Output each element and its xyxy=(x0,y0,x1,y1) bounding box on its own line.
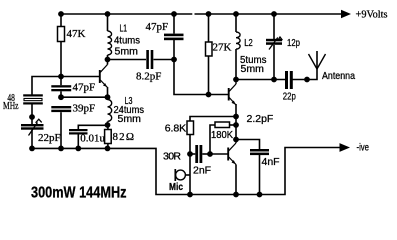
wire Q3 emitter down xyxy=(235,165,237,195)
svg-text:2.2pF: 2.2pF xyxy=(247,113,274,125)
wire 12p trimmer lead xyxy=(273,14,275,39)
transistor Q2 xyxy=(229,80,236,106)
svg-text:47pF: 47pF xyxy=(73,82,96,94)
gap in top rail xyxy=(192,13,194,16)
node 180K right xyxy=(233,122,239,128)
capacitor C7 12p trimmer xyxy=(266,39,282,45)
svg-text:0.01u: 0.01u xyxy=(80,133,105,145)
svg-text:2nF: 2nF xyxy=(193,165,211,177)
wire Q3 base xyxy=(210,153,228,155)
node top rail L2 xyxy=(233,11,239,17)
wire 174 column down to Q2 base row xyxy=(174,60,228,95)
node top rail 27K xyxy=(206,11,212,17)
node 27K base xyxy=(206,92,212,98)
svg-text:Antenna: Antenna xyxy=(322,70,355,82)
inductor L2 xyxy=(236,32,240,49)
resistor R3 82ohm xyxy=(105,130,112,144)
capacitor C6 8.2pF xyxy=(146,50,153,69)
node top rail 47pF xyxy=(171,11,177,17)
svg-text:+9Volts: +9Volts xyxy=(356,9,388,21)
wire 2nF row xyxy=(190,153,195,155)
svg-text:22p: 22p xyxy=(283,91,296,103)
node rail 82R xyxy=(105,146,111,152)
svg-text:8.2pF: 8.2pF xyxy=(136,71,161,83)
svg-text:82Ω: 82Ω xyxy=(113,131,135,143)
wire collector Q3 node to 4nF xyxy=(235,125,237,140)
svg-text:MHz: MHz xyxy=(3,100,19,112)
capacitor C3 22pF trimmer xyxy=(21,124,44,130)
node L2 bottom xyxy=(233,77,239,83)
node Q1 emitter xyxy=(105,94,111,100)
node Q2 emitter 6.8K xyxy=(233,114,239,120)
capacitor C2 39pF xyxy=(51,106,71,112)
resistor R4 6.8K xyxy=(187,121,194,135)
svg-text:6.8K: 6.8K xyxy=(165,123,187,135)
+9V supply arrow xyxy=(341,10,351,19)
svg-text:-ive: -ive xyxy=(357,142,370,154)
wire Q2 emitter down xyxy=(235,104,237,117)
wire mic branch xyxy=(189,154,191,195)
svg-text:5mm: 5mm xyxy=(241,63,265,75)
wire bottom left rail xyxy=(32,148,341,195)
wire 0.01u branch xyxy=(78,125,107,129)
-ive supply arrow xyxy=(340,143,351,152)
node caps junction xyxy=(58,94,64,100)
node 2nF right xyxy=(207,151,213,157)
wire 47pF top cap leads xyxy=(173,14,175,34)
wire L3 leads xyxy=(107,97,109,99)
svg-text:39pF: 39pF xyxy=(73,103,96,115)
wire 82R leads xyxy=(107,125,109,129)
wire L1 column leads xyxy=(107,14,109,31)
capacitor C1 47pF xyxy=(51,85,71,91)
wire 47K column xyxy=(60,14,62,27)
wire crystal branch xyxy=(32,77,61,95)
capacitor C5 47pF top xyxy=(164,34,184,41)
svg-text:27K: 27K xyxy=(213,42,232,54)
node top rail 12p xyxy=(271,11,277,17)
svg-text:30R: 30R xyxy=(163,151,181,163)
capacitor C8 22p xyxy=(285,71,293,89)
svg-text:22pF: 22pF xyxy=(38,132,61,144)
svg-text:5mm: 5mm xyxy=(115,46,139,58)
inductor L3 xyxy=(108,100,112,122)
microphone Mic xyxy=(176,170,186,180)
svg-text:5mm: 5mm xyxy=(118,113,142,125)
node 8.2pF out xyxy=(171,57,177,63)
node rail Q3 emitter xyxy=(233,192,239,198)
wire top rail xyxy=(61,13,341,15)
node rail mic xyxy=(187,192,193,198)
transistor Q1 xyxy=(100,65,108,88)
node dots xyxy=(29,11,310,197)
node rail trimmer xyxy=(29,146,35,152)
node 12p bottom xyxy=(271,77,277,83)
wire 180K link xyxy=(235,117,237,126)
wire L2 leads xyxy=(235,14,237,32)
svg-text:47K: 47K xyxy=(67,28,86,40)
wire Q1 collector/emitter column xyxy=(107,60,109,65)
node top rail L1 xyxy=(105,11,111,17)
wire mid row 8.2pF link xyxy=(108,59,147,61)
node 2nF left xyxy=(187,151,193,157)
wire 27K leads xyxy=(208,14,210,42)
capacitor C9 2nF xyxy=(195,145,202,163)
resistor R2 27K xyxy=(206,42,213,56)
svg-text:L1: L1 xyxy=(120,23,128,35)
svg-text:47pF: 47pF xyxy=(146,21,169,33)
crystal X1 48MHz xyxy=(23,94,43,104)
resistor R1 47K xyxy=(58,27,65,42)
transistor Q3 xyxy=(228,140,236,165)
capacitor C10 4nF xyxy=(250,149,269,155)
svg-text:180K: 180K xyxy=(211,129,233,141)
node crystal trimmer xyxy=(29,114,35,120)
resistor R5 180K xyxy=(215,122,230,128)
node Q3 collector xyxy=(233,137,239,143)
capacitor C4 0.01u xyxy=(69,129,88,135)
wire crystal to trimmer xyxy=(31,105,33,125)
node L1 bottom xyxy=(105,57,111,63)
inductor L1 xyxy=(108,31,112,55)
wire xyxy=(154,59,175,61)
wire emitter node to 6.8K xyxy=(190,117,236,122)
node rail 0.01u xyxy=(75,146,81,152)
wire emitter to caps junction xyxy=(61,96,108,98)
svg-text:4nF: 4nF xyxy=(262,156,280,168)
node rail 4nF xyxy=(257,192,263,198)
wire base Q1 xyxy=(61,76,99,78)
node 47K base junction xyxy=(58,74,64,80)
node L3 bottom xyxy=(105,122,111,128)
wire antenna row xyxy=(236,79,285,81)
node rail 39pF xyxy=(58,146,64,152)
svg-text:L2: L2 xyxy=(244,37,253,49)
antenna xyxy=(309,54,326,69)
node antenna xyxy=(304,77,310,83)
svg-text:12p: 12p xyxy=(287,37,300,49)
svg-text:300mW 144MHz: 300mW 144MHz xyxy=(31,185,127,202)
node top rail 47K xyxy=(58,11,64,17)
svg-text:Mic: Mic xyxy=(169,181,183,193)
